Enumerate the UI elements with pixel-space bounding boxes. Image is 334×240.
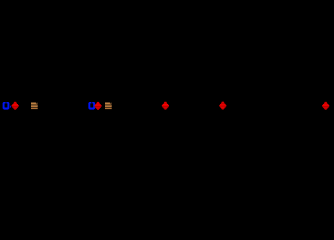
- red diamond sprite 1: [12, 102, 19, 110]
- red diamond sprite 3: [162, 102, 169, 110]
- blue nub right of ring 1: [9, 106, 12, 108]
- blue ring sprite 2: [88, 102, 95, 110]
- red diamond sprite 5: [322, 102, 329, 110]
- red diamond sprite 4: [219, 102, 226, 110]
- red diamond sprite 2: [94, 102, 101, 110]
- brown block sprite 2: [105, 103, 112, 110]
- brown block sprite 1: [31, 103, 38, 110]
- blue ring sprite 1: [3, 102, 10, 110]
